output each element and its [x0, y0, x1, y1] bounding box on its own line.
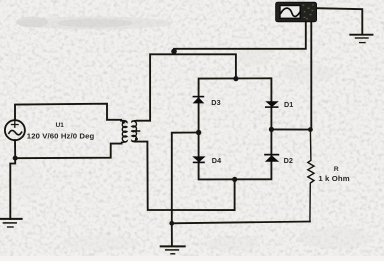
wire source bottom to node: [14, 140, 16, 158]
bridge rectangle wires: [199, 78, 272, 179]
node at source bottom: [13, 156, 18, 161]
node resistor junction: [308, 127, 313, 132]
node bridge bottom: [232, 177, 237, 182]
wire mid node to center ground: [171, 223, 173, 246]
secondary polarity dot: [135, 138, 138, 141]
svg-text:120 V/60 Hz/0 Deg: 120 V/60 Hz/0 Deg: [27, 131, 95, 140]
diode D3: [193, 96, 205, 104]
svg-text:D4: D4: [212, 156, 221, 165]
node scope A tap: [171, 49, 177, 55]
diode D2: [264, 154, 279, 162]
wire node to bottom-left ground (jog): [10, 158, 15, 219]
node mid ground junction: [169, 221, 174, 226]
AC source U1: [5, 120, 25, 140]
svg-text:R: R: [334, 166, 339, 173]
diode D4: [192, 156, 205, 163]
wire resistor bottom to mid ground node: [172, 222, 310, 224]
node bridge right: [269, 127, 274, 132]
svg-text:U1: U1: [56, 122, 65, 129]
node bridge top: [233, 76, 238, 81]
ground bottom-center: [161, 246, 185, 253]
wire scope channel B down to resistor junction: [310, 22, 312, 130]
transformer primary winding: [121, 121, 127, 143]
wire scope channel A to tap node: [174, 22, 306, 49]
diode D1: [265, 101, 279, 108]
wire scope to top-right ground: [317, 8, 363, 34]
svg-text:D2: D2: [284, 156, 293, 165]
wire source top to transformer primary top: [15, 104, 121, 121]
node bridge left: [196, 130, 201, 135]
svg-text:1 k Ohm: 1 k Ohm: [318, 174, 349, 183]
ground bottom-left: [0, 219, 22, 227]
wire secondary top to bridge top node: [137, 54, 236, 120]
ground top-right: [350, 35, 372, 43]
transformer secondary winding: [132, 121, 140, 142]
oscilloscope XSC1: [276, 2, 317, 21]
primary polarity dot: [122, 121, 125, 124]
wire bridge right node to resistor junction: [271, 128, 310, 130]
wire node to transformer primary bottom (return): [15, 144, 121, 159]
svg-text:D3: D3: [211, 98, 220, 107]
wire secondary bottom to bridge bottom node: [135, 142, 235, 211]
wire bridge left node to mid ground node: [172, 133, 199, 224]
resistor R: [308, 130, 314, 222]
svg-text:D1: D1: [284, 100, 293, 109]
